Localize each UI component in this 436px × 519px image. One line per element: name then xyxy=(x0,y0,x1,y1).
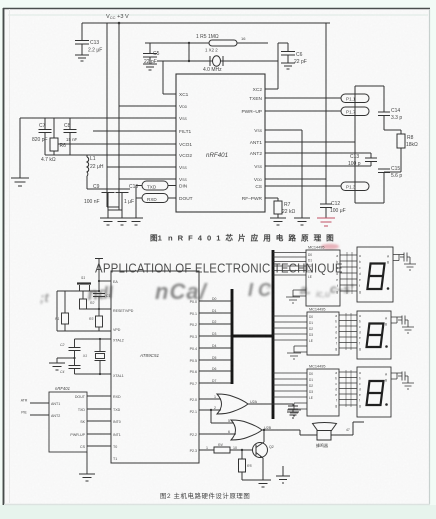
IC U4 MC14495 xyxy=(306,250,340,306)
blue scribble in module 1 xyxy=(266,284,330,299)
bus horizontal link xyxy=(232,335,273,338)
digit 8 DS1 xyxy=(367,264,384,290)
wire PWR-UP xyxy=(265,110,341,112)
resistor R3 xyxy=(96,309,103,331)
wire U6 low pins xyxy=(294,403,307,410)
page border left xyxy=(3,8,5,505)
wire U5 low pins xyxy=(294,346,307,353)
node collector xyxy=(263,429,265,431)
IC U5 MC14495 xyxy=(307,312,339,355)
IC U3 nRF401 interface xyxy=(49,392,87,452)
resistor R1 xyxy=(57,291,69,331)
bus vertical 2 xyxy=(272,250,275,419)
inner shadow lines xyxy=(8,14,428,16)
wire Vdd right xyxy=(265,178,326,180)
wire EA branch xyxy=(99,280,111,282)
decimal point DS3 xyxy=(385,403,388,406)
wire gate1 input B xyxy=(199,409,221,411)
capacitor C2 xyxy=(69,339,81,358)
switch S1 xyxy=(77,282,91,284)
node base xyxy=(241,449,243,451)
inductor L1 xyxy=(87,155,89,189)
labels figure 1 xyxy=(32,14,418,215)
port P1.7 xyxy=(341,107,369,116)
ground U3 xyxy=(79,474,95,481)
wire P0.4 xyxy=(199,347,232,349)
wire U6 inputs xyxy=(273,373,307,397)
wire Vss pin2 xyxy=(107,166,176,168)
capacitor DS2 xyxy=(398,316,408,325)
gate U7B OR xyxy=(231,420,262,440)
wire U3 ground xyxy=(86,452,88,474)
wire Vdd pin xyxy=(119,105,176,107)
port P1.1 xyxy=(341,94,369,103)
wire Vss right2 xyxy=(265,165,355,167)
wire Vdd vertical left 1 xyxy=(106,23,108,207)
wire bottom joining xyxy=(107,207,122,210)
capacitor C5 xyxy=(143,43,157,64)
bus data labels xyxy=(212,297,216,383)
resistor R2 xyxy=(80,291,87,309)
segment ladder marks 2 xyxy=(346,313,351,350)
wire U4 segment outputs xyxy=(340,255,357,291)
wire DS3 common xyxy=(391,373,402,379)
wire reset top xyxy=(57,290,99,292)
wire Vss right xyxy=(265,130,302,218)
wire U4 low pins xyxy=(293,290,306,297)
capacitor C6 xyxy=(278,43,295,63)
port RXD xyxy=(136,194,176,203)
wire XC2 xyxy=(265,88,278,90)
ground under C13 xyxy=(75,55,89,61)
wire DS1 common xyxy=(393,255,404,261)
capacitor DS1 xyxy=(400,253,410,262)
wire P0.7 xyxy=(199,382,232,384)
display DS3 xyxy=(357,367,391,417)
digit 8 DS3 xyxy=(367,381,384,405)
ground under R7 xyxy=(270,218,286,225)
ground U4 xyxy=(286,297,300,303)
wire TXEN xyxy=(265,97,341,99)
wire P0.1 xyxy=(199,312,232,314)
ground transistor xyxy=(255,480,271,487)
wire ANT1 xyxy=(265,141,355,143)
resistor R9 pulldown xyxy=(241,450,243,459)
wire SK xyxy=(87,420,111,422)
ground DS1 xyxy=(404,257,416,270)
resistor R8 xyxy=(397,134,405,172)
wire vpd row xyxy=(57,313,111,331)
wire to gate2 xyxy=(211,410,234,423)
wire gate1 input A xyxy=(199,398,221,400)
resistor R6 xyxy=(45,118,87,155)
watermark blue xyxy=(40,279,354,305)
capacitor C9 xyxy=(102,189,115,210)
ground bottom mid xyxy=(276,466,290,483)
ground DS2 xyxy=(402,320,414,333)
IC U6 MC14495 xyxy=(307,369,339,416)
ground under C10 xyxy=(114,210,130,225)
gate U7A OR xyxy=(217,394,248,414)
ground under C6 xyxy=(281,63,295,69)
capacitor C13 xyxy=(75,23,89,55)
wire gate2 input B xyxy=(199,433,236,435)
wire U5 segment outputs xyxy=(339,315,357,348)
caption figure 1 xyxy=(150,233,339,243)
crystal X1 xyxy=(95,339,106,374)
wire node L XC1 xyxy=(163,61,176,94)
antenna network frame xyxy=(355,86,384,203)
wire XTAL1 xyxy=(75,373,112,375)
ground DS3 xyxy=(402,376,414,389)
capacitor C15 xyxy=(378,169,401,203)
wire crystal link xyxy=(188,43,190,61)
decimal point DS1 xyxy=(387,287,390,290)
wire P0.2 xyxy=(199,323,232,325)
wire network bottom xyxy=(355,202,384,204)
capacitor C7 xyxy=(39,118,52,155)
resistor R4 xyxy=(199,449,214,451)
U2 pin labels xyxy=(113,280,197,461)
decimal point DS2 xyxy=(385,345,388,348)
wire oval drop xyxy=(135,186,137,219)
capacitor DS3 xyxy=(398,372,408,381)
capacitor C10 xyxy=(116,189,129,210)
page border right xyxy=(429,9,431,504)
resistor R7 xyxy=(274,201,282,218)
wire CS xyxy=(265,185,341,187)
segment ladder marks xyxy=(347,252,352,294)
wire DS2 common xyxy=(391,317,402,323)
wire ANT2 xyxy=(265,153,371,158)
wire gate1 out xyxy=(248,403,293,405)
segment ladder marks 3 xyxy=(346,370,351,407)
wire U4 inputs xyxy=(273,253,306,276)
node gate branch xyxy=(210,409,212,411)
wire ANT2 stub xyxy=(30,414,49,416)
wire filter bottom xyxy=(87,188,130,190)
wire Vdd vertical left 2 xyxy=(118,23,120,207)
ground U6 xyxy=(287,410,301,416)
capacitor C8 xyxy=(64,118,77,155)
port TXD xyxy=(136,181,176,190)
Vcc +3V power rail xyxy=(82,22,330,24)
crystal X2 xyxy=(210,56,223,66)
wire C13b bottom xyxy=(355,165,371,167)
display DS1 xyxy=(357,247,393,302)
IC U2 AT89C51 xyxy=(111,271,199,463)
wire RF-PWR xyxy=(265,198,278,201)
ground under C9 xyxy=(100,210,116,225)
wire VCO2 xyxy=(70,154,176,156)
buzzer BZ1 xyxy=(313,423,337,431)
capacitor C12 xyxy=(320,204,332,218)
ground under C12 red xyxy=(317,218,335,226)
wire crystal bottom line xyxy=(157,60,278,62)
U1 pin labels xyxy=(179,87,263,202)
wire VCO1 xyxy=(58,143,176,145)
capacitor C13b xyxy=(365,158,377,166)
ground right mid xyxy=(294,218,310,225)
wire P0.5 xyxy=(199,359,232,361)
wire buzzer right xyxy=(331,422,364,435)
page border top xyxy=(3,8,430,10)
wire ANT1 stub xyxy=(30,402,49,404)
wire Vss pin xyxy=(20,117,176,119)
transistor Q2 xyxy=(253,443,268,458)
labels reset xyxy=(55,276,110,374)
red mark above module 1 xyxy=(321,244,339,250)
page border bottom xyxy=(4,504,430,506)
port P1.3 xyxy=(341,182,369,191)
wire U5 inputs xyxy=(273,316,307,340)
wire P0.6 xyxy=(199,370,232,372)
display DS2 xyxy=(357,311,391,359)
wire DOUT xyxy=(87,395,111,397)
wire U6 segment outputs xyxy=(339,372,357,405)
wire FILT1 xyxy=(93,130,176,132)
digit 8 DS2 xyxy=(367,324,384,348)
ground under TXD RXD xyxy=(129,218,143,225)
capacitor C14 xyxy=(378,112,390,130)
wire XTAL2 xyxy=(75,338,112,340)
capacitor C11 xyxy=(93,294,105,310)
bus vertical 1 xyxy=(231,289,234,384)
wire reset row xyxy=(83,308,111,310)
wire PWRUP2 xyxy=(87,433,111,435)
capacitor alarm xyxy=(288,404,298,412)
wire Vcc right drop xyxy=(325,23,327,204)
ground U5 xyxy=(287,353,301,359)
wire P0.0 xyxy=(199,300,232,302)
IC U1 nRF401 xyxy=(176,74,265,212)
wire gate2 out xyxy=(262,430,317,435)
wire CS2 xyxy=(87,445,111,447)
wire node R XC2 xyxy=(277,43,279,89)
Vcc tee fig2 xyxy=(95,259,103,292)
ground crystal xyxy=(49,358,75,370)
ground alarm xyxy=(287,412,299,418)
wire Vss pin3 xyxy=(119,178,176,180)
node junction on rail xyxy=(118,22,121,25)
ground left big xyxy=(11,118,29,186)
ground under C5 xyxy=(143,64,157,70)
wire P0.3 xyxy=(199,335,232,337)
capacitor C4 xyxy=(69,358,81,374)
resistor R5 xyxy=(209,40,237,46)
wire TXD2 xyxy=(87,408,111,410)
wire C14 to R8 xyxy=(384,130,401,134)
wire crystal top line xyxy=(145,42,268,44)
